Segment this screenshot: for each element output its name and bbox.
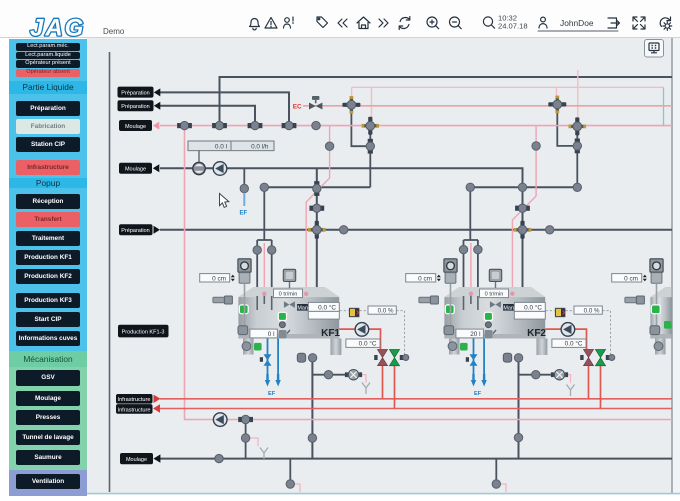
tag production KF1-3 xyxy=(118,325,169,338)
tank KF1 inner pipes xyxy=(257,294,272,310)
icon chevrons right xyxy=(379,19,388,27)
ball valve moulage 2 xyxy=(193,162,205,174)
svg-text:Infrastructure: Infrastructure xyxy=(118,407,151,413)
icon alarm triangle xyxy=(265,18,277,29)
dash link KF2 xyxy=(546,311,611,358)
pink moulage line 1 xyxy=(160,125,672,127)
pipe KF1 inlet stem xyxy=(257,187,272,308)
level box KF2 xyxy=(456,329,484,338)
svg-text:0 l: 0 l xyxy=(268,331,275,338)
bottom stub sensor 2 xyxy=(492,480,500,488)
valve pink line 3 xyxy=(248,121,263,129)
tag moulage 3 xyxy=(120,453,160,464)
pink inlet dot KF2 a xyxy=(469,292,473,296)
pipe KF1 drain xyxy=(311,362,313,459)
drain sensor KF2 xyxy=(514,433,522,441)
tank KF2 body xyxy=(444,287,547,355)
diagram right border xyxy=(671,38,673,493)
red EC line xyxy=(303,105,672,107)
svg-text:EF: EF xyxy=(474,391,482,397)
svg-text:JAG: JAG xyxy=(30,15,85,38)
pipe KF2 inlet stem xyxy=(464,187,479,308)
red infrastructure header 1 xyxy=(160,398,672,400)
icon zoom in xyxy=(427,17,439,29)
drain stub sensor KF1 xyxy=(324,371,332,379)
pink hook infra stub xyxy=(248,438,258,446)
blue section xyxy=(9,39,87,351)
pipe EF stub xyxy=(243,168,245,186)
tag infrastructure 2 xyxy=(116,404,160,414)
svg-text:0.0 °C: 0.0 °C xyxy=(359,340,377,348)
tag preparation 1 xyxy=(118,87,161,98)
tank KF2 inner pipes xyxy=(464,294,478,310)
blue arrow KF2 a xyxy=(471,374,476,387)
pipe fill header KF2 xyxy=(470,186,577,188)
pink feed KF2 xyxy=(512,126,536,293)
pipe preparation out 1 xyxy=(160,92,289,125)
drain circle KF2 xyxy=(514,354,522,362)
drain sensor KF1 xyxy=(308,434,316,442)
pink hook bottom stub 2 xyxy=(498,484,506,492)
pipe KF1 drain stub xyxy=(312,374,359,376)
icon user xyxy=(539,17,547,28)
green sq KF3 a xyxy=(651,305,660,314)
pump moulage 2 xyxy=(213,162,227,176)
agitator valve KF1 xyxy=(284,301,295,308)
probe instrument KF1 xyxy=(213,296,233,304)
strainer KF2 xyxy=(567,385,575,397)
edit icon KF2 xyxy=(485,330,497,338)
valve pink line 4 xyxy=(282,121,297,129)
svg-text:EF: EF xyxy=(268,391,276,397)
diagram bottom border xyxy=(87,493,680,495)
green sq KF1 a xyxy=(239,305,248,314)
pink hook bottom stub 1 xyxy=(292,484,300,492)
pipe preparation out 2 xyxy=(160,106,255,126)
agitator valve KF2 xyxy=(490,301,501,308)
heat pump KF1 xyxy=(355,323,369,337)
sensor fill header KF1 xyxy=(260,183,268,191)
icon chevrons left xyxy=(338,19,347,27)
infra stub sensor xyxy=(241,434,249,442)
instrument column KF1 xyxy=(238,259,251,351)
cross valve moulage KF2 xyxy=(569,117,587,135)
svg-text:0.0 °C: 0.0 °C xyxy=(318,304,336,312)
sensor fill header KF2 a xyxy=(466,183,474,191)
bottom header sensor xyxy=(215,454,223,462)
icon logout xyxy=(608,18,620,28)
pipe infrastructure stub 1 xyxy=(245,420,247,459)
blue arrow KF1 b xyxy=(275,374,280,387)
pink center feed KF1 xyxy=(263,243,265,294)
drain circle KF1 xyxy=(308,354,316,362)
sensor below pink KF2 xyxy=(532,142,540,150)
pink inlet dot KF2 b xyxy=(510,292,514,296)
cross valve EC KF2 xyxy=(548,96,566,114)
blue arrow KF1 a xyxy=(265,374,270,387)
svg-text:KF2: KF2 xyxy=(527,328,546,339)
valve fill KF1 mid xyxy=(309,204,324,212)
icon zoom out xyxy=(450,17,462,29)
icon settings sync xyxy=(660,17,672,30)
small circle KF2 xyxy=(485,322,491,328)
display percent KF1 xyxy=(368,306,396,315)
diagram background xyxy=(87,37,680,494)
level display 0cm KF3 xyxy=(612,274,647,283)
tag preparation 2 xyxy=(118,100,161,111)
strainer KF1 xyxy=(362,383,370,395)
pipe cross link KF1 xyxy=(351,109,370,187)
green sq KF3 b xyxy=(664,321,672,329)
valve cluster red KF1 xyxy=(374,350,387,366)
red circuit KF1 xyxy=(339,329,394,408)
pipe KF2 drain xyxy=(518,362,520,459)
svg-text:20 l: 20 l xyxy=(470,331,480,338)
svg-text:Moulage: Moulage xyxy=(125,167,146,173)
probe instrument KF3 xyxy=(625,296,645,304)
pink drop to cross 2 xyxy=(371,87,373,120)
display temp top KF2 xyxy=(514,302,545,311)
svg-text:Man: Man xyxy=(297,305,308,311)
display percent KF2 xyxy=(574,306,602,315)
display empty KF2 xyxy=(514,311,545,319)
pipe top header xyxy=(220,77,673,125)
pink hook drain KF2 xyxy=(565,375,571,383)
svg-text:0.0 l/h: 0.0 l/h xyxy=(251,144,269,151)
pipe KF2 fill drop xyxy=(522,187,524,296)
green sq KF1 c xyxy=(254,343,262,351)
Man tag KF2 xyxy=(503,304,514,311)
level box KF1 xyxy=(250,329,278,338)
svg-text:EF: EF xyxy=(240,211,248,217)
pipe moulage header 2 xyxy=(160,168,523,187)
sensor fill header KF2 c xyxy=(573,183,581,191)
svg-text:0.0 °C: 0.0 °C xyxy=(565,340,583,348)
pipe moulage bottom header xyxy=(160,458,672,460)
inlet circle KF2 a xyxy=(459,245,467,253)
svg-text:JohnDoe: JohnDoe xyxy=(560,18,594,28)
drain stub ball valve KF2 xyxy=(551,370,568,380)
pink drop to cross 3 xyxy=(556,87,558,99)
level display 0cm KF2 xyxy=(406,274,441,283)
pipe cross link KF2 xyxy=(557,109,577,188)
valve cluster green KF1 xyxy=(390,350,409,366)
instrument column KF3 xyxy=(650,259,663,351)
EC hand valve xyxy=(309,96,322,110)
green sq KF1 b xyxy=(278,312,286,320)
sensor below pink KF1 xyxy=(325,142,333,150)
svg-text:KF1: KF1 xyxy=(321,328,340,339)
svg-text:0 cm: 0 cm xyxy=(418,275,432,282)
icon operator xyxy=(284,17,294,28)
teal drop right xyxy=(663,87,665,125)
cross valve EC KF1 xyxy=(342,96,360,114)
svg-text:Préparation: Préparation xyxy=(121,90,149,96)
icon refresh xyxy=(399,17,410,30)
svg-text:0.0 °C: 0.0 °C xyxy=(524,304,542,312)
icon tag xyxy=(317,17,328,28)
svg-text:Préparation: Préparation xyxy=(121,104,149,110)
instrument column KF2 xyxy=(444,259,457,351)
tag preparation 3 xyxy=(119,224,160,235)
sensor EF stub xyxy=(240,184,248,192)
Man tag KF1 xyxy=(297,304,308,311)
drain stub sensor KF2 xyxy=(532,371,540,379)
cross valve moulage KF1 xyxy=(362,117,380,135)
blue lines KF1 xyxy=(268,339,279,375)
valve pink line 2 xyxy=(212,121,227,129)
cross valve fill KF1 xyxy=(308,221,326,239)
tank KF3 body partial xyxy=(650,287,671,354)
svg-text:Production KF1-3: Production KF1-3 xyxy=(122,330,165,336)
red infrastructure header 2 xyxy=(160,408,672,410)
tag infrastructure 1 xyxy=(116,394,161,404)
icon fullscreen xyxy=(633,17,645,29)
svg-text:EC: EC xyxy=(293,103,302,110)
pink inlet dot KF1 b xyxy=(304,292,308,296)
pink center feed KF2 xyxy=(470,243,472,294)
svg-text:24.07.18: 24.07.18 xyxy=(498,22,528,31)
small circle KF1 xyxy=(279,322,285,328)
mouse cursor xyxy=(220,194,229,208)
pink drop to cross 4 xyxy=(577,70,579,121)
inlet circle KF1 b xyxy=(268,246,276,254)
pipe fill header KF1 xyxy=(264,186,370,188)
svg-text:0 tr/min: 0 tr/min xyxy=(485,292,504,298)
display temp bottom KF1 xyxy=(346,339,380,348)
icon search xyxy=(483,17,494,28)
monitor button xyxy=(645,40,664,58)
pink hook drain KF1 xyxy=(360,375,367,383)
svg-text:Infrastructure: Infrastructure xyxy=(118,397,151,403)
sensor prep3 KF2 xyxy=(546,226,554,234)
sensor pink line xyxy=(312,121,320,129)
tag moulage 1 xyxy=(119,120,159,131)
display temp top KF1 xyxy=(308,302,339,311)
flow box link xyxy=(198,151,200,163)
agitator motor KF1 xyxy=(283,269,295,288)
blue lines KF2 xyxy=(474,339,485,375)
pipe bottom stub 1 xyxy=(289,459,291,484)
svg-text:0.0 l: 0.0 l xyxy=(215,144,227,151)
svg-text:Moulage: Moulage xyxy=(125,124,146,130)
pipe KF2 drain stub xyxy=(519,374,566,376)
pipe preparation header 3 xyxy=(160,229,672,231)
pink drop to cross 1 xyxy=(351,87,353,100)
valve fill KF1 on header xyxy=(313,181,321,196)
infra stub valve xyxy=(238,415,253,423)
sensor prep3 KF1 xyxy=(340,226,348,234)
svg-text:Préparation: Préparation xyxy=(121,228,149,234)
blue EF drop xyxy=(243,193,245,206)
pipe KF1 fill drop xyxy=(316,168,318,296)
edit icon KF1 xyxy=(279,330,291,338)
svg-text:0.0 %: 0.0 % xyxy=(584,308,600,315)
blue valve KF2 xyxy=(466,354,478,366)
pink inlet dot KF1 a xyxy=(262,292,266,296)
drain square KF2 xyxy=(503,353,511,362)
valve pink line 1 xyxy=(177,121,192,129)
svg-text:0 tr/min: 0 tr/min xyxy=(279,292,298,298)
tag moulage 2 xyxy=(119,163,159,174)
svg-text:Moulage: Moulage xyxy=(126,457,147,463)
diagram left border xyxy=(109,52,111,492)
blue valve KF1 xyxy=(260,354,272,366)
inlet circle KF2 b xyxy=(474,245,482,253)
pipe bottom stub 2 xyxy=(495,459,497,484)
valve cluster red KF2 xyxy=(580,350,593,366)
green sq KF2 b xyxy=(484,312,492,320)
purple section xyxy=(9,470,87,497)
valve cluster green KF2 xyxy=(596,350,615,366)
agitator motor KF2 xyxy=(489,269,501,288)
heat pump KF2 xyxy=(561,323,575,337)
cross valve fill KF2 xyxy=(514,221,532,239)
status icon KF1 xyxy=(349,308,359,317)
svg-text:0 cm: 0 cm xyxy=(212,275,226,282)
drain stub ball valve KF1 xyxy=(345,370,362,380)
icon home xyxy=(357,17,370,29)
display rpm KF2 xyxy=(480,289,509,298)
valve fill KF2 mid xyxy=(515,204,530,212)
probe instrument KF2 xyxy=(419,296,439,304)
display empty KF1 xyxy=(308,311,339,319)
display rpm KF1 xyxy=(274,289,303,298)
flow display box xyxy=(188,141,274,151)
dash link KF1 xyxy=(340,311,405,358)
inlet circle KF1 a xyxy=(253,246,261,254)
strainer infra xyxy=(260,448,268,460)
status icon KF2 xyxy=(555,308,565,317)
green sq KF2 a xyxy=(445,305,454,314)
svg-text:Demo: Demo xyxy=(103,27,125,36)
red circuit KF2 xyxy=(545,329,600,408)
bottom stub sensor 1 xyxy=(286,480,294,488)
sensor fill header KF2 b xyxy=(518,183,526,191)
pink top header xyxy=(352,86,664,88)
green section xyxy=(9,351,87,470)
blue arrow KF2 b xyxy=(481,374,486,387)
green sq KF2 c xyxy=(460,343,468,351)
tank KF1 body xyxy=(238,287,341,355)
display temp bottom KF2 xyxy=(552,339,586,348)
svg-text:0.0 %: 0.0 % xyxy=(378,308,394,315)
pink riser left long xyxy=(185,126,673,420)
valve link KF1 xyxy=(366,139,374,154)
valve link KF2 xyxy=(573,139,581,154)
pink feed KF1 xyxy=(306,126,329,294)
svg-text:Man: Man xyxy=(503,305,514,311)
svg-text:0 cm: 0 cm xyxy=(624,275,638,282)
icon bell xyxy=(250,19,260,30)
infrastructure pump xyxy=(213,413,227,427)
drain square KF1 xyxy=(297,353,305,362)
level display 0cm KF1 xyxy=(200,274,235,283)
